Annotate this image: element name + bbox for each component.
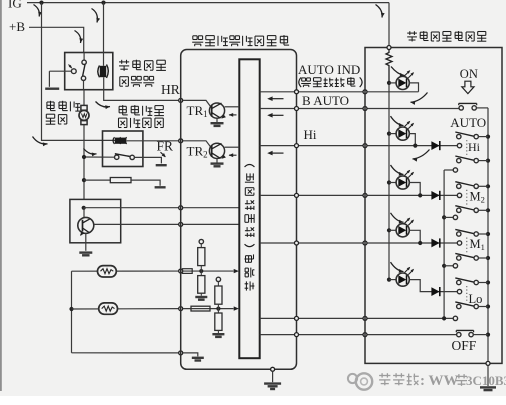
svg-text:AUTO IND: AUTO IND (298, 62, 360, 77)
wire resistor to ground (131, 180, 160, 186)
arrow bus2 (267, 113, 283, 118)
arrow IG down (34, 5, 42, 17)
arrow LED D2 (391, 116, 404, 127)
ground Q1 (79, 253, 92, 256)
relay K1 coil (98, 65, 109, 78)
wire LED D2 cathode (409, 134, 417, 148)
label OFF (452, 338, 477, 353)
label 微电脑(特高速运转) vertical (244, 165, 254, 291)
wire bus M2 (260, 194, 458, 196)
contact circle 1 (453, 215, 457, 219)
arrow HR corner (96, 102, 111, 110)
wire collector line (94, 223, 181, 225)
switch ON (459, 103, 477, 110)
relay K1 tiny arrow (69, 65, 73, 69)
node IG label (8, 0, 22, 11)
wire stub 2 (444, 265, 453, 267)
label 鼓风机风 (119, 105, 164, 116)
label 自动空调器放大器 (192, 35, 289, 46)
pin right bus bottom (486, 361, 490, 365)
ground relay K2 switch (156, 164, 167, 166)
transistor Q1 power (78, 208, 94, 251)
ground amp internal (192, 358, 204, 361)
contact circle 0 (453, 168, 457, 172)
amplifier box 自动空调器放大器 (181, 50, 297, 370)
ground R4 (195, 297, 207, 300)
LED D4 M1 (389, 218, 414, 237)
wire sensor line 2 (72, 308, 181, 310)
motor M1 blower (79, 90, 89, 200)
label Hi (304, 127, 317, 142)
pin HR on amp (179, 98, 183, 102)
watermark camera icon (348, 373, 372, 389)
svg-text:AUTO: AUTO (450, 115, 486, 130)
wire stub 1 (444, 216, 453, 218)
arrow at TR1 (229, 113, 237, 117)
control board box 暖风装置控制板 (365, 48, 502, 364)
arrow under D6 (413, 150, 430, 162)
wire stub 0 (444, 169, 453, 171)
switch group M2 (455, 182, 488, 213)
arrow bus1 (267, 96, 283, 101)
label TR2 (187, 143, 208, 159)
label AUTO (450, 115, 486, 130)
arrow ON hollow (462, 81, 474, 93)
label 暖风装置控制板 (407, 31, 486, 41)
transistor TR2 (183, 141, 240, 163)
resistor R6 (215, 286, 222, 309)
wire to resistor (82, 178, 110, 182)
relay K2 switch (115, 154, 135, 160)
wire IG drop to control board (388, 3, 390, 48)
diode D7 (431, 191, 439, 200)
relay K1 switch (81, 53, 86, 90)
label 暖风装置 (119, 60, 166, 71)
wire IG rail (27, 1, 389, 5)
resistor R5 (191, 306, 210, 311)
svg-text:B AUTO: B AUTO (302, 93, 349, 108)
label Hi switch (468, 140, 481, 154)
switch group Hi (455, 132, 488, 163)
LED D5 Lo (389, 267, 414, 286)
pin board top (387, 46, 391, 50)
wire LED D1 cathode (409, 83, 418, 92)
wire collector inside amp (183, 223, 240, 225)
wire sensor line 1 (72, 270, 181, 272)
wire OFF to bus (473, 334, 488, 336)
label 扇继电器 (119, 118, 164, 128)
wire right bus (486, 108, 490, 362)
wire bus bottom ground (487, 365, 489, 386)
arrow bus3 (267, 151, 283, 156)
LED D3 M2 (389, 170, 414, 189)
wire IG branch (42, 3, 117, 141)
ground TR2 (211, 164, 224, 167)
wire LED D4 cathode (409, 230, 422, 245)
wire gnd line inside amp (183, 353, 198, 357)
microcomputer box (239, 59, 259, 358)
arrow LED D1 (391, 67, 405, 77)
wire bus M1 (260, 242, 458, 244)
wire amp bottom ground (272, 371, 274, 382)
pins bus3 (295, 144, 368, 148)
wire bus AUTO-IND (260, 91, 419, 93)
ground relay K1 (45, 87, 59, 89)
wire base line inside amp (183, 207, 240, 209)
svg-text:FR: FR (157, 139, 174, 154)
svg-text:ON: ON (460, 67, 478, 81)
ground board (480, 387, 496, 390)
label 继电器 (120, 76, 154, 86)
wire FR line (127, 140, 181, 142)
arrow IG branch corner (33, 137, 48, 147)
pin sensor gnd on amp (179, 351, 183, 355)
ground R7 (212, 334, 224, 337)
ground TR1 (211, 123, 224, 126)
label TR1 (187, 103, 208, 119)
wire left inner bus (442, 170, 446, 321)
node HR label (161, 82, 180, 97)
relay K2 box (103, 131, 143, 167)
contact circle Lo feed (453, 316, 457, 320)
relay K1 common terminal (49, 69, 76, 87)
label M2 (470, 190, 485, 205)
label 电机 (46, 114, 67, 124)
wire IG to coil (103, 3, 105, 66)
ground amp bottom (264, 384, 281, 389)
node base junction (82, 206, 86, 210)
wire led anode bus (387, 81, 391, 282)
power transistor box (70, 199, 121, 242)
svg-text:OFF: OFF (452, 338, 477, 353)
pin collector on amp (179, 222, 183, 226)
thermistor TH2 (99, 303, 118, 314)
ground R1 (155, 186, 166, 188)
pin amp bottom (271, 367, 275, 371)
diode D6 (431, 141, 439, 150)
relay K1 box (65, 53, 113, 90)
arrow LED D5 (391, 262, 404, 273)
svg-text:+B: +B (9, 19, 25, 34)
pins busA (295, 316, 368, 320)
wire switch to ground (134, 157, 161, 163)
pin base on amp (179, 206, 183, 210)
arrow +B down (75, 31, 84, 44)
pot wiper P1 (199, 239, 203, 247)
pins bus4 (295, 193, 368, 197)
label AUTO IND (298, 62, 360, 77)
wire bus Hi (260, 145, 458, 147)
wire left sensor bus (69, 271, 73, 353)
pin sensor2 on amp (179, 307, 183, 311)
pins bus1 (295, 90, 368, 94)
resistor R1 (110, 178, 131, 183)
wire coil to HR (104, 77, 181, 100)
arrow LED D3 (391, 165, 404, 176)
wire divider line1 (183, 269, 239, 273)
switch group Lo (455, 278, 488, 309)
resistor R8 led feed (386, 50, 392, 83)
node +B label (9, 19, 25, 34)
diode D8 (431, 238, 439, 247)
svg-text:Hi: Hi (304, 127, 317, 142)
label (自动指示灯) (299, 77, 362, 87)
resistor R2 (183, 269, 193, 274)
svg-text:Lo: Lo (469, 292, 483, 306)
arrow FR pointer (161, 152, 166, 157)
arrow to switch (84, 149, 97, 157)
svg-text:3C10B3: 3C10B3 (466, 373, 506, 388)
label 鼓风机 (47, 101, 80, 112)
wire bus B (260, 334, 457, 336)
svg-text:: WW: : WW (420, 373, 458, 389)
wire switch to motor line (82, 155, 115, 159)
pins bus2 (295, 107, 368, 111)
wire sensor ground line (72, 352, 181, 354)
wire LED D5 cathode (409, 280, 457, 292)
wire ON to bus (476, 107, 488, 109)
wire divider line2 (183, 306, 239, 310)
arrow under D1 (411, 93, 428, 105)
switch group M1 (455, 229, 488, 260)
diode D9 (431, 287, 439, 296)
pot wiper P2 (216, 277, 220, 286)
relay K2 coil (113, 137, 127, 144)
svg-text:IG: IG (8, 0, 22, 11)
wire bus B-AUTO (260, 108, 459, 110)
node FR label (157, 139, 174, 154)
wire +B rail (29, 27, 84, 52)
resistor R4 (198, 271, 205, 296)
thermistor TH1 (98, 266, 117, 277)
wire base line (84, 207, 181, 209)
svg-text:Hi: Hi (468, 140, 481, 154)
arrow at TR2 (229, 153, 237, 157)
label ON (460, 67, 478, 81)
switch OFF (456, 330, 473, 336)
pin sensor1 on amp (179, 269, 183, 273)
arrow LED D4 (391, 213, 404, 224)
arrow into relay coil (92, 9, 101, 23)
resistor R7 (215, 309, 222, 333)
pins busB (295, 333, 368, 337)
arrow board drop (376, 5, 385, 18)
watermark text (379, 373, 506, 389)
label Lo (469, 292, 483, 306)
LED D1 AUTO-IND (389, 70, 414, 89)
LED D2 Hi (389, 121, 414, 140)
transistor TR1 (183, 100, 240, 122)
contact circle 2 (453, 264, 457, 268)
label M1 (470, 237, 485, 252)
label B AUTO (302, 93, 349, 108)
wire bus A (260, 317, 454, 319)
resistor R3 (198, 248, 205, 271)
pin FR on amp (179, 139, 183, 143)
svg-text:HR: HR (161, 82, 180, 97)
pins bus5 (295, 241, 368, 245)
wire LED D3 cathode (409, 183, 422, 198)
